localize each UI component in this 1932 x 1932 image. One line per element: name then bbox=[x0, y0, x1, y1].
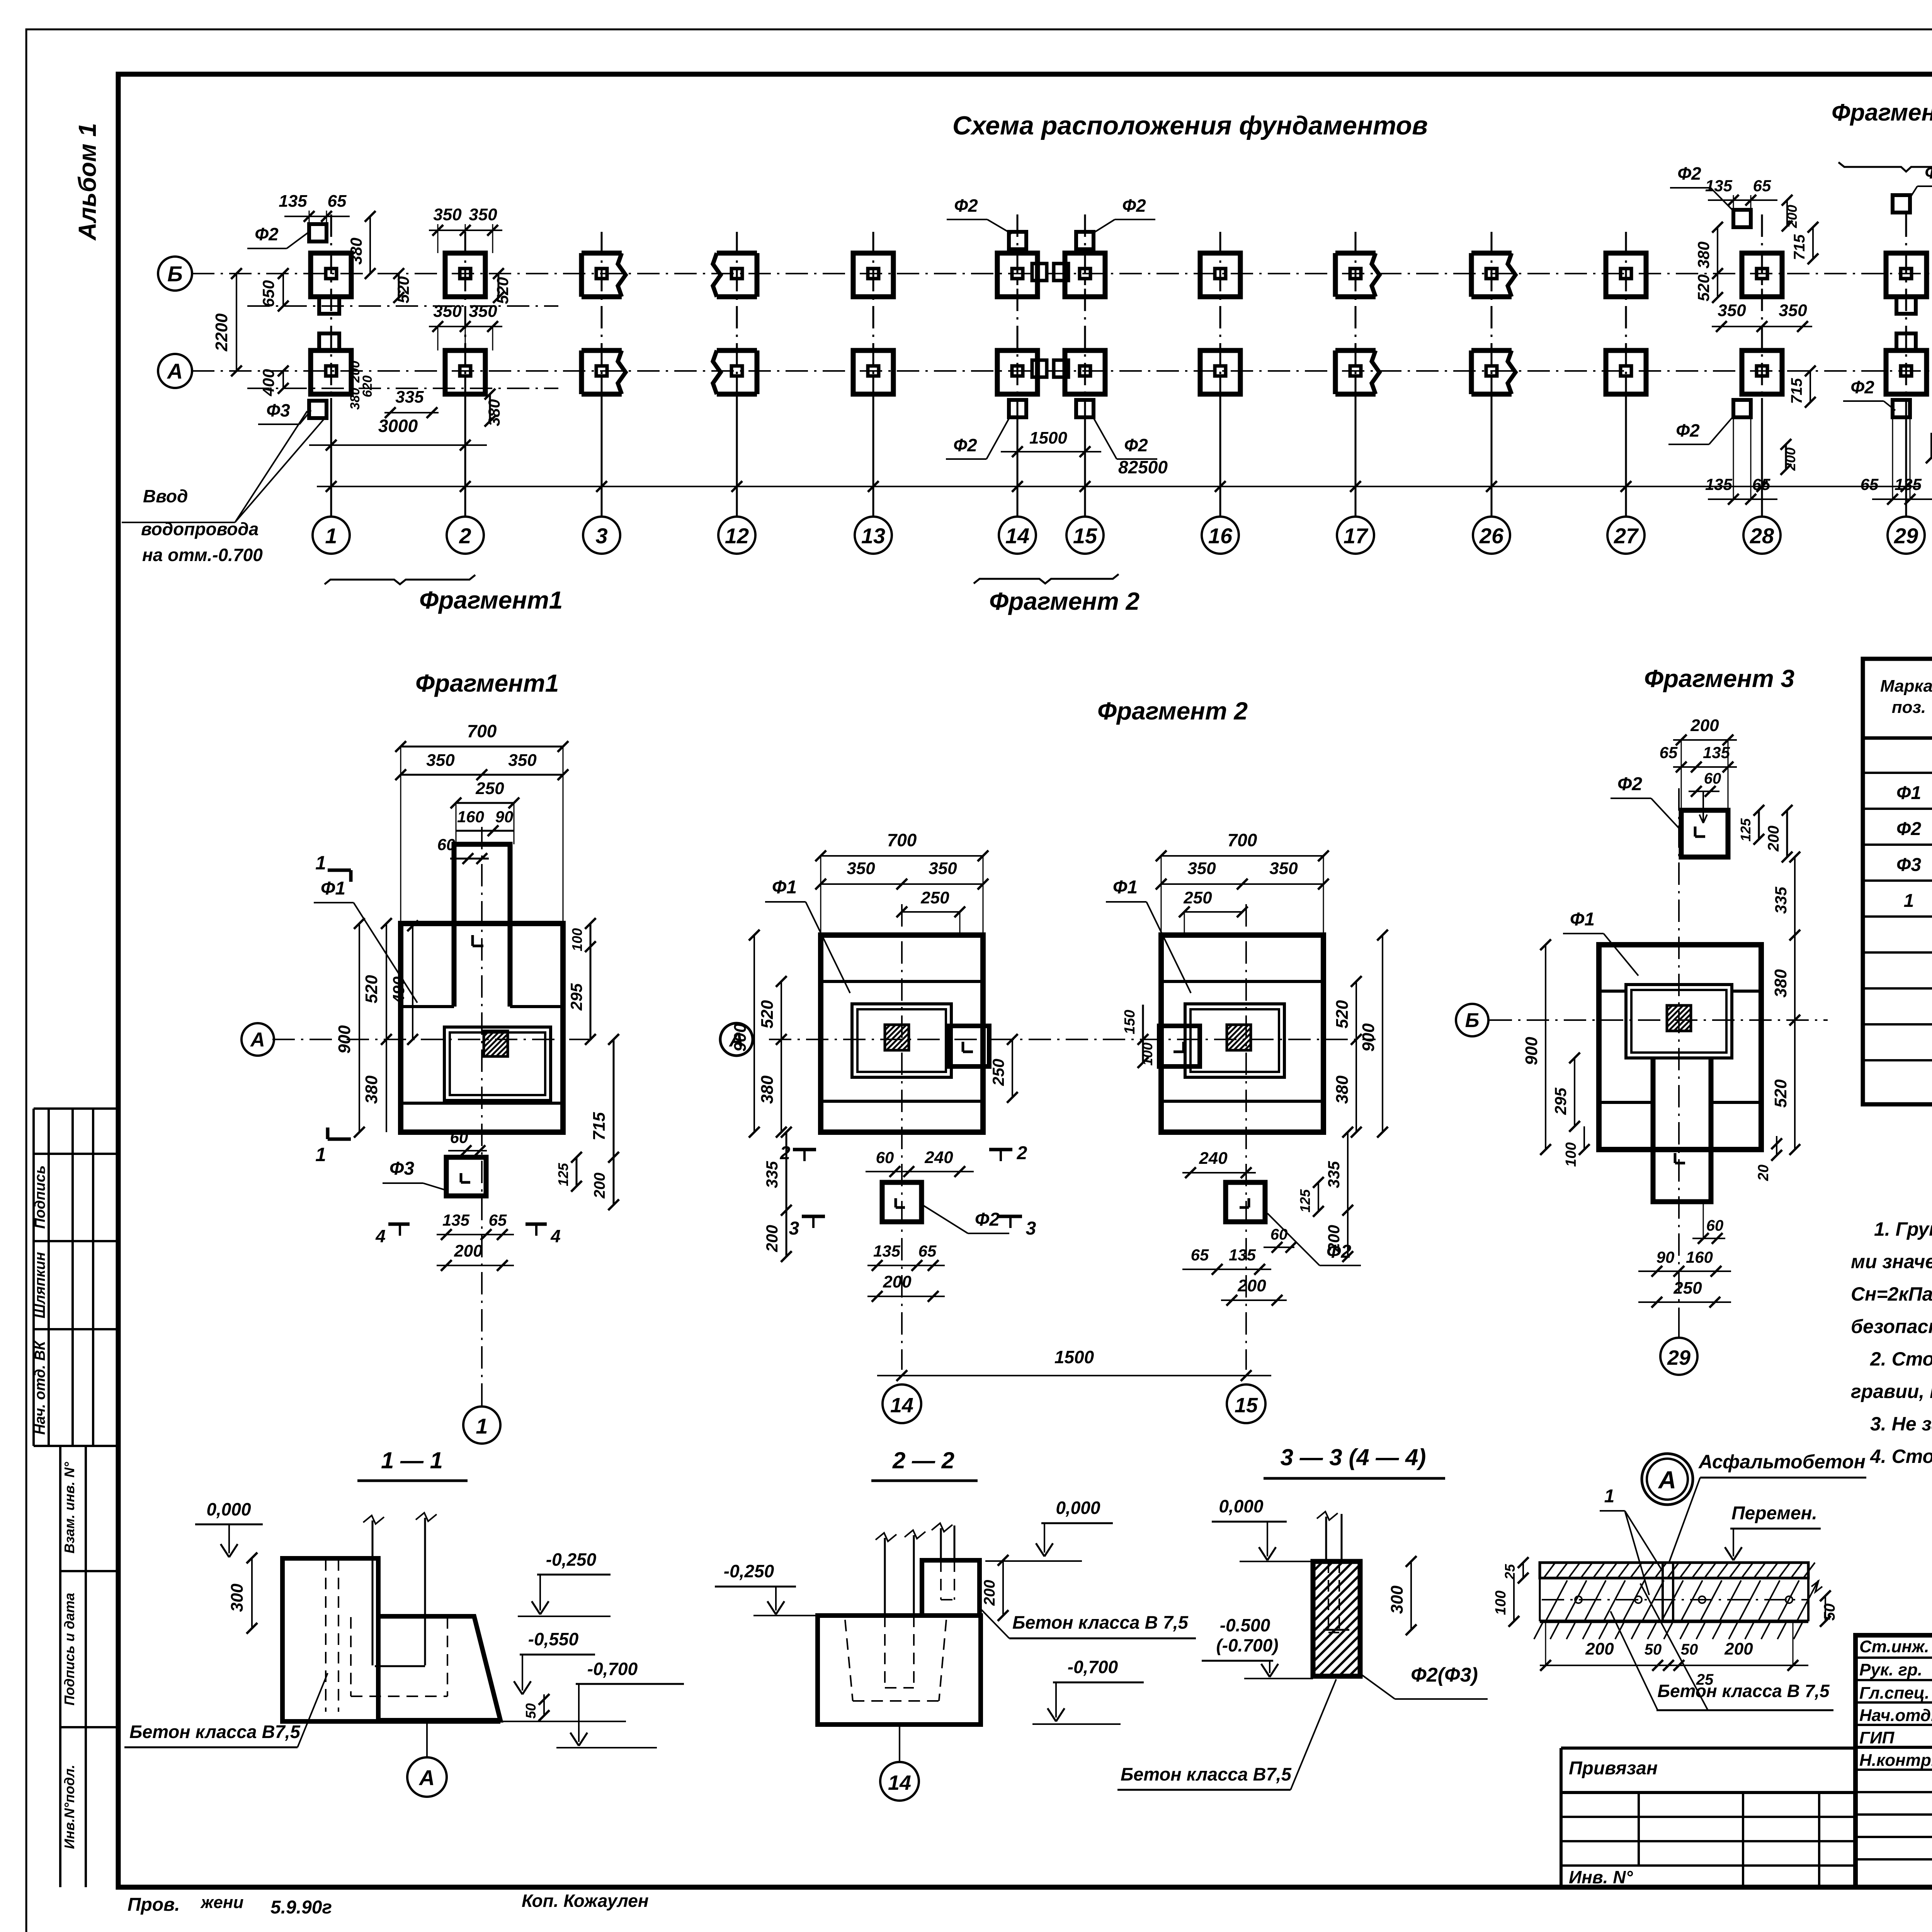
svg-text:Подпись: Подпись bbox=[32, 1165, 48, 1229]
svg-text:295: 295 bbox=[567, 983, 585, 1011]
svg-text:200: 200 bbox=[1784, 205, 1800, 228]
svg-text:200: 200 bbox=[883, 1272, 912, 1291]
node A base dashdot with anchors bbox=[1542, 1599, 1808, 1600]
svg-text:90: 90 bbox=[1656, 1248, 1675, 1266]
svg-text:поз.: поз. bbox=[1892, 698, 1926, 717]
svg-text:200: 200 bbox=[1690, 716, 1719, 735]
fragment2 dim 900 far left bbox=[753, 935, 755, 1132]
svg-text:50: 50 bbox=[523, 1703, 539, 1719]
fragment3 column hatched bbox=[1667, 1005, 1691, 1031]
svg-text:380: 380 bbox=[1694, 241, 1713, 269]
svg-text:Ф2: Ф2 bbox=[1617, 774, 1642, 794]
svg-text:Ст.инж.: Ст.инж. bbox=[1859, 1637, 1929, 1656]
svg-text:60: 60 bbox=[876, 1148, 894, 1167]
foundation Ф1 col 1 row А with tab bbox=[311, 350, 351, 394]
svg-text:350: 350 bbox=[469, 205, 497, 224]
water supply dashdot lines bbox=[247, 305, 558, 307]
svg-text:250: 250 bbox=[1673, 1279, 1702, 1298]
svg-text:Бетон класса В7,5: Бетон класса В7,5 bbox=[129, 1721, 301, 1742]
column circle 14 bbox=[999, 517, 1036, 554]
fragment2 left band lines bbox=[821, 980, 983, 983]
svg-text:Марка,: Марка, bbox=[1880, 677, 1932, 696]
column axis 14 bbox=[1017, 214, 1019, 398]
svg-text:-0.500: -0.500 bbox=[1220, 1615, 1270, 1635]
svg-text:Ф3: Ф3 bbox=[266, 400, 290, 420]
svg-text:335: 335 bbox=[1772, 886, 1790, 914]
svg-text:65: 65 bbox=[1753, 177, 1771, 195]
fragment1 band lines bbox=[401, 1005, 454, 1008]
column axis 17 bbox=[1355, 232, 1357, 398]
column circle 26 bbox=[1473, 517, 1510, 554]
svg-text:100: 100 bbox=[1563, 1142, 1579, 1167]
svg-text:Ф2: Ф2 bbox=[1850, 377, 1874, 397]
svg-text:4. Стойки замаркированы на лис: 4. Стойки замаркированы на листе 4. bbox=[1870, 1446, 1932, 1467]
column axis 28 bbox=[1761, 214, 1763, 398]
svg-text:безопасности по грунту Кг=1.0.: безопасности по грунту Кг=1.0. Грунтовые… bbox=[1851, 1316, 1932, 1337]
svg-text:Ф2: Ф2 bbox=[255, 224, 279, 244]
svg-text:200: 200 bbox=[591, 1173, 608, 1199]
fragment2 right axis vertical bbox=[1245, 904, 1247, 1370]
svg-text:Ф2: Ф2 bbox=[1677, 163, 1701, 184]
fragment1 section mark 4 marks bbox=[388, 1223, 410, 1226]
node A dim 25 left bbox=[1522, 1563, 1524, 1578]
dim 400 left bbox=[282, 371, 284, 388]
fragment3 axis vertical bbox=[1678, 788, 1680, 1321]
svg-text:26: 26 bbox=[1479, 524, 1504, 548]
svg-text:350: 350 bbox=[1779, 301, 1807, 320]
svg-text:620: 620 bbox=[360, 376, 375, 398]
section 2-2 dashed pit walls bbox=[845, 1620, 853, 1701]
Ф2 attached squares col 14/15 row А bbox=[1032, 360, 1047, 377]
svg-text:160: 160 bbox=[457, 808, 484, 826]
svg-text:380: 380 bbox=[485, 399, 503, 426]
svg-text:335: 335 bbox=[1325, 1161, 1343, 1188]
svg-text:Гл.спец.: Гл.спец. bbox=[1859, 1684, 1929, 1702]
fragment2 right Ф1 outer square bbox=[1161, 935, 1323, 1132]
foundation Ф1 col 13 row А bbox=[853, 350, 893, 394]
svg-text:135: 135 bbox=[279, 192, 307, 211]
svg-text:900: 900 bbox=[1522, 1037, 1541, 1065]
Ф2 plan squares col 1 bbox=[309, 224, 327, 241]
svg-text:15: 15 bbox=[1235, 1394, 1258, 1417]
svg-text:-0,250: -0,250 bbox=[724, 1561, 774, 1581]
svg-text:Б: Б bbox=[167, 262, 183, 286]
svg-text:65: 65 bbox=[489, 1211, 507, 1229]
title block signature rows bbox=[1855, 1656, 1932, 1659]
svg-text:200: 200 bbox=[763, 1225, 781, 1252]
svg-text:5.9.90г: 5.9.90г bbox=[270, 1897, 332, 1918]
svg-text:1500: 1500 bbox=[1054, 1347, 1094, 1367]
fragment3 dim 295 left bbox=[1574, 1058, 1575, 1126]
dim 520 col1 bbox=[398, 274, 400, 298]
section 3-3 column above bbox=[1325, 1517, 1327, 1561]
svg-text:350: 350 bbox=[929, 859, 957, 878]
svg-text:1: 1 bbox=[315, 852, 326, 874]
svg-text:3. Не замаркированные на схеме: 3. Не замаркированные на схеме фундамент… bbox=[1870, 1413, 1932, 1435]
fragment3 dim 900 left bbox=[1545, 945, 1546, 1150]
svg-text:1. Грунты в основании непучини: 1. Грунты в основании непучинистые, непр… bbox=[1874, 1218, 1932, 1240]
column circle 3 bbox=[583, 517, 620, 554]
svg-text:1 — 1: 1 — 1 bbox=[381, 1447, 443, 1473]
fragment3 band line bottom bbox=[1599, 1101, 1653, 1104]
column circle 12 bbox=[718, 517, 755, 554]
node A dim 50 right bbox=[1825, 1596, 1826, 1621]
svg-text:Сн=2кПа(0,02кгс/см²), Е=14,7МП: Сн=2кПа(0,02кгс/см²), Е=14,7МПа (150кгс/… bbox=[1851, 1283, 1932, 1305]
foundation Ф1 col 3 row А bbox=[582, 348, 622, 353]
svg-text:2: 2 bbox=[1017, 1143, 1027, 1163]
svg-text:350: 350 bbox=[508, 751, 537, 770]
section 1-1 bottom line bbox=[282, 1719, 500, 1724]
section 2-2 column break marks bbox=[876, 1533, 896, 1541]
svg-text:200: 200 bbox=[981, 1580, 998, 1606]
section 2-2 axis circle 14 bbox=[899, 1725, 900, 1762]
section 1-1 column break marks bbox=[363, 1515, 384, 1524]
fragment3 circle 29 bbox=[1678, 1321, 1680, 1338]
svg-text:65: 65 bbox=[918, 1242, 937, 1260]
fragment2 left dims 520/380 bbox=[781, 981, 782, 1132]
svg-text:2. Стойки заделать в фундамент: 2. Стойки заделать в фундаменты бетоном … bbox=[1870, 1348, 1932, 1370]
svg-text:ГИП: ГИП bbox=[1859, 1728, 1895, 1747]
fragment1 Ф1 outer square bbox=[401, 923, 563, 1132]
section 2-2 dim 200 bbox=[1002, 1560, 1004, 1616]
svg-text:200: 200 bbox=[1585, 1639, 1614, 1658]
svg-text:335: 335 bbox=[395, 388, 424, 406]
svg-text:1: 1 bbox=[325, 524, 337, 548]
svg-text:-0,250: -0,250 bbox=[546, 1549, 597, 1570]
dim 380 col2 bottom bbox=[489, 394, 491, 421]
svg-text:520: 520 bbox=[758, 1000, 777, 1029]
svg-text:65: 65 bbox=[1752, 475, 1770, 493]
axis А line bbox=[192, 370, 1932, 372]
fragment1 anchor well double rect bbox=[444, 1027, 551, 1100]
svg-text:0,000: 0,000 bbox=[1056, 1498, 1100, 1518]
svg-text:350: 350 bbox=[469, 302, 497, 321]
node A ground hatch below bbox=[1534, 1623, 1543, 1639]
fragment3 dim 100 left bbox=[1583, 1126, 1585, 1150]
svg-text:3: 3 bbox=[595, 524, 607, 548]
svg-text:900: 900 bbox=[1359, 1023, 1378, 1052]
svg-text:Асфальтобетон: Асфальтобетон bbox=[1698, 1451, 1866, 1473]
svg-text:А: А bbox=[1658, 1466, 1676, 1494]
svg-text:250: 250 bbox=[1183, 888, 1212, 907]
fragment1 pedestal column mark bbox=[473, 945, 483, 947]
svg-text:125: 125 bbox=[1297, 1189, 1313, 1213]
svg-text:65: 65 bbox=[328, 192, 347, 211]
svg-text:Шляпкин: Шляпкин bbox=[32, 1252, 48, 1318]
fragment2 left Ф2 bottom detail bbox=[882, 1182, 922, 1222]
svg-text:240: 240 bbox=[924, 1148, 953, 1167]
svg-text:200: 200 bbox=[1765, 826, 1782, 852]
column axis 13 bbox=[872, 232, 874, 398]
svg-text:20: 20 bbox=[1755, 1165, 1772, 1181]
svg-text:Ф1: Ф1 bbox=[772, 877, 797, 898]
svg-text:Б: Б bbox=[1465, 1009, 1480, 1032]
annex block Привязан bbox=[1561, 1747, 1855, 1750]
foundation Ф1 col 14 row Б bbox=[997, 253, 1037, 297]
svg-text:350: 350 bbox=[1718, 301, 1746, 320]
section 1-1 dim 50 bbox=[543, 1694, 545, 1716]
foundation Ф1 col 29 row А with pedestal bbox=[1886, 350, 1927, 394]
fragment2 right dims 335/200 below bbox=[1347, 1132, 1349, 1210]
column circle 28 bbox=[1743, 517, 1781, 554]
node A concrete base layer bbox=[1540, 1577, 1808, 1579]
foundation Ф1 col 15 row А bbox=[1065, 350, 1105, 394]
fragment2 left column hatched bbox=[885, 1025, 909, 1050]
column axis 27 bbox=[1625, 232, 1627, 398]
fragment2 circle 15 bbox=[1227, 1384, 1265, 1423]
svg-text:380: 380 bbox=[1333, 1075, 1352, 1104]
svg-text:380: 380 bbox=[362, 1075, 381, 1104]
svg-text:13: 13 bbox=[861, 524, 885, 548]
svg-text:29: 29 bbox=[1667, 1346, 1690, 1369]
svg-text:135: 135 bbox=[1705, 177, 1733, 195]
svg-text:2: 2 bbox=[459, 524, 471, 548]
svg-text:2 — 2: 2 — 2 bbox=[892, 1447, 954, 1473]
column circle 27 bbox=[1607, 517, 1645, 554]
svg-text:380: 380 bbox=[758, 1075, 777, 1104]
fragment3 Ф1 outer square bbox=[1599, 945, 1761, 1150]
fragment3 axis horizontal bbox=[1490, 1019, 1828, 1021]
svg-text:520: 520 bbox=[1694, 274, 1713, 301]
svg-text:Ф2: Ф2 bbox=[975, 1209, 1000, 1230]
svg-text:900: 900 bbox=[335, 1025, 354, 1054]
svg-text:-0,700: -0,700 bbox=[587, 1659, 638, 1679]
svg-text:135: 135 bbox=[1705, 475, 1733, 493]
svg-text:715: 715 bbox=[590, 1112, 609, 1141]
dim 200 col28 top bbox=[1786, 200, 1788, 226]
dim 200 col28 bottom bbox=[1785, 444, 1787, 469]
svg-text:Взам. инв. N°: Взам. инв. N° bbox=[61, 1462, 77, 1554]
svg-text:Фрагмент1: Фрагмент1 bbox=[419, 586, 563, 614]
section 2-2 pier box above ground bbox=[922, 1560, 980, 1616]
svg-text:125: 125 bbox=[1738, 818, 1753, 842]
svg-text:Ф2: Ф2 bbox=[1925, 162, 1932, 182]
dim 520 col2 bbox=[498, 274, 500, 298]
svg-text:200: 200 bbox=[454, 1242, 483, 1260]
fragment2 right anchor well bbox=[1185, 1004, 1284, 1077]
svg-text:3000: 3000 bbox=[378, 416, 418, 436]
svg-text:160: 160 bbox=[1686, 1248, 1713, 1266]
svg-text:300: 300 bbox=[228, 1583, 247, 1612]
svg-text:1: 1 bbox=[315, 1144, 326, 1165]
svg-text:4: 4 bbox=[550, 1226, 561, 1246]
svg-text:125: 125 bbox=[555, 1163, 571, 1186]
fragment1 dim 125/200 right of Ф3 bbox=[576, 1157, 578, 1186]
svg-text:400: 400 bbox=[259, 369, 277, 396]
foundation Ф1 col 15 row Б bbox=[1065, 253, 1105, 297]
foundation Ф1 col 29 row Б with pedestal bbox=[1886, 253, 1927, 297]
section 3-3 dim 300 bbox=[1410, 1561, 1412, 1630]
svg-text:Ф1: Ф1 bbox=[321, 878, 345, 899]
svg-text:295: 295 bbox=[1551, 1087, 1570, 1115]
fragment2 section marks 2 bbox=[793, 1148, 816, 1151]
svg-text:50: 50 bbox=[1681, 1641, 1698, 1658]
fragment1 dim 490 left bbox=[412, 926, 413, 1039]
svg-text:200: 200 bbox=[1237, 1276, 1266, 1295]
column circle 15 bbox=[1066, 517, 1104, 554]
fragment1 column hatched bbox=[484, 1031, 508, 1056]
svg-text:65: 65 bbox=[1861, 475, 1879, 493]
svg-text:Бетон класса В 7,5: Бетон класса В 7,5 bbox=[1657, 1681, 1830, 1701]
svg-text:60: 60 bbox=[1704, 770, 1721, 787]
svg-text:1: 1 bbox=[1604, 1486, 1615, 1507]
svg-text:Ф1: Ф1 bbox=[1896, 783, 1921, 803]
svg-text:-0,700: -0,700 bbox=[1068, 1657, 1118, 1677]
svg-text:250: 250 bbox=[920, 888, 949, 907]
svg-text:60: 60 bbox=[450, 1128, 468, 1146]
column axis 2 bbox=[464, 232, 466, 398]
svg-text:100: 100 bbox=[1493, 1590, 1509, 1615]
fragment3 Ф2 top detail bbox=[1681, 810, 1728, 857]
svg-text:Рук. гр.: Рук. гр. bbox=[1859, 1660, 1922, 1679]
svg-text:350: 350 bbox=[847, 859, 875, 878]
fragment1 axis horizontal bbox=[272, 1039, 595, 1040]
fragment2 left axis vertical bbox=[901, 904, 903, 1370]
fragment2 right band lines bbox=[1161, 980, 1323, 983]
column circle 17 bbox=[1337, 517, 1374, 554]
svg-text:1: 1 bbox=[476, 1414, 488, 1438]
fragment2 circle 14 bbox=[883, 1384, 921, 1423]
section 1-1 axis circle А bbox=[426, 1721, 428, 1758]
svg-text:650: 650 bbox=[259, 280, 277, 307]
column axis 16 bbox=[1219, 232, 1221, 398]
svg-text:Фрагмент1: Фрагмент1 bbox=[415, 669, 559, 697]
svg-text:А: А bbox=[418, 1765, 435, 1790]
column axis 1 bbox=[330, 214, 332, 398]
fragment1 Ф3 detail square bbox=[446, 1157, 486, 1196]
svg-text:Ф3: Ф3 bbox=[389, 1158, 414, 1179]
svg-text:380: 380 bbox=[1771, 969, 1790, 998]
svg-text:4: 4 bbox=[375, 1226, 386, 1246]
svg-text:200: 200 bbox=[1928, 437, 1932, 460]
svg-text:135: 135 bbox=[873, 1242, 901, 1260]
foundation Ф1 col 16 row Б bbox=[1200, 253, 1240, 297]
foundation Ф1 col 16 row А bbox=[1200, 350, 1240, 394]
fragment3 dim 125/200 right of Ф2 bbox=[1758, 810, 1760, 839]
svg-text:715: 715 bbox=[1791, 234, 1808, 260]
svg-text:50: 50 bbox=[1821, 1604, 1838, 1621]
foundation Ф1 col 26 row А bbox=[1471, 348, 1512, 353]
fragment1 axis vertical bbox=[481, 827, 483, 1391]
svg-text:3: 3 bbox=[789, 1218, 799, 1239]
svg-text:135: 135 bbox=[442, 1211, 470, 1229]
svg-text:16: 16 bbox=[1208, 524, 1233, 548]
svg-text:135: 135 bbox=[1895, 475, 1922, 493]
foundation Ф1 col 17 row Б bbox=[1335, 251, 1376, 256]
svg-text:350: 350 bbox=[433, 205, 462, 224]
fragment2 left dims 335/200 below bbox=[786, 1132, 787, 1210]
svg-text:Фрагмент 2: Фрагмент 2 bbox=[1097, 697, 1248, 725]
section 1-1 dashed pit lines bbox=[350, 1617, 352, 1696]
fragment1 circle 1 bbox=[481, 1391, 483, 1406]
spec table rows bbox=[1863, 772, 1932, 774]
svg-text:Ф2: Ф2 bbox=[953, 435, 977, 455]
dim 380 col28 bbox=[1717, 227, 1718, 274]
svg-text:Фрагмент 2: Фрагмент 2 bbox=[989, 587, 1139, 615]
column circle 1 bbox=[313, 517, 350, 554]
fragment2 right dim 125 bbox=[1318, 1182, 1319, 1211]
fragment3 pedestal down bbox=[1653, 1058, 1711, 1202]
svg-text:700: 700 bbox=[887, 830, 917, 850]
svg-text:17: 17 bbox=[1344, 524, 1369, 548]
svg-text:15: 15 bbox=[1073, 524, 1097, 548]
column circle 16 bbox=[1202, 517, 1239, 554]
svg-text:82500: 82500 bbox=[1118, 457, 1168, 477]
svg-text:29: 29 bbox=[1894, 524, 1918, 548]
svg-text:А: А bbox=[250, 1029, 265, 1051]
svg-text:150: 150 bbox=[1122, 1010, 1138, 1034]
fragment2 axis horizontal bbox=[769, 1039, 1376, 1040]
dim 200 col29 bottom bbox=[1930, 433, 1932, 458]
svg-text:100: 100 bbox=[569, 928, 585, 951]
fragment2 right column hatched bbox=[1227, 1025, 1251, 1050]
svg-text:Фрагмент 3: Фрагмент 3 bbox=[1832, 99, 1932, 126]
svg-text:Ф3: Ф3 bbox=[1896, 855, 1921, 875]
fragment2 right dims 520/380 bbox=[1355, 981, 1357, 1132]
title block frame bbox=[1855, 1635, 1932, 1887]
foundation Ф1 col 1 row Б with tab bbox=[311, 253, 351, 297]
svg-text:Ф2: Ф2 bbox=[1327, 1242, 1351, 1262]
node A double circle bbox=[1642, 1454, 1693, 1505]
svg-text:2200: 2200 bbox=[212, 313, 231, 352]
svg-text:гравии, морозостойкость не ниж: гравии, морозостойкость не ниже F50. bbox=[1851, 1381, 1932, 1402]
svg-text:520: 520 bbox=[1333, 1000, 1352, 1029]
svg-text:715: 715 bbox=[1788, 378, 1805, 404]
svg-text:Пров.: Пров. bbox=[128, 1895, 180, 1915]
fragment2 section marks 3 bbox=[802, 1215, 825, 1218]
svg-text:300: 300 bbox=[1388, 1585, 1406, 1614]
foundation Ф1 col 14 row А bbox=[997, 350, 1037, 394]
svg-text:135: 135 bbox=[1229, 1246, 1256, 1264]
svg-text:520: 520 bbox=[493, 277, 512, 304]
Ф2 plan squares col 14/15 row А bbox=[1009, 400, 1026, 417]
dim 380 col1 bbox=[369, 216, 371, 274]
fragment2 right Ф2 bottom detail bbox=[1226, 1182, 1265, 1222]
svg-text:700: 700 bbox=[1228, 830, 1257, 850]
section 2-2 pier column dashed bbox=[940, 1528, 942, 1560]
svg-text:520: 520 bbox=[394, 276, 412, 303]
svg-text:Привязан: Привязан bbox=[1569, 1758, 1658, 1779]
svg-text:жени: жени bbox=[200, 1893, 243, 1912]
fragment3 dim 380 right bbox=[1794, 935, 1796, 1020]
svg-text:Ф2: Ф2 bbox=[1896, 819, 1921, 839]
margin stamp lower (Взам.инв.N / Подпись и дата / Инв.N подл.) bbox=[60, 1445, 118, 1447]
axis А circle bbox=[158, 354, 192, 388]
svg-text:Ф2: Ф2 bbox=[1124, 435, 1148, 455]
foundation Ф1 col 26 row Б bbox=[1471, 251, 1512, 256]
svg-text:12: 12 bbox=[725, 524, 749, 548]
node A asphalt layer hatched bbox=[1540, 1563, 1808, 1578]
dim 715 col28 Б bbox=[1812, 227, 1814, 259]
section 1-1 trapezoid footing bbox=[316, 1616, 500, 1720]
Ф2 attached squares col 14/15 row Б bbox=[1032, 264, 1047, 281]
svg-text:2: 2 bbox=[780, 1143, 791, 1163]
svg-text:14: 14 bbox=[888, 1771, 911, 1794]
svg-text:Коп. Кожаулен: Коп. Кожаулен bbox=[522, 1891, 649, 1911]
svg-text:1: 1 bbox=[1904, 891, 1914, 911]
column circle 13 bbox=[855, 517, 892, 554]
column axis 26 bbox=[1491, 232, 1493, 398]
svg-text:350: 350 bbox=[1187, 859, 1216, 878]
section 2-2 column 14 solid+dashed bbox=[884, 1538, 886, 1616]
section 1-1 left box bbox=[282, 1558, 378, 1721]
foundation Ф1 col 27 row Б bbox=[1606, 253, 1646, 297]
foundation Ф1 col 28 row Б bbox=[1742, 253, 1782, 297]
foundation Ф1 col 13 row Б bbox=[853, 253, 893, 297]
svg-text:0,000: 0,000 bbox=[1219, 1496, 1264, 1516]
svg-text:А: А bbox=[167, 359, 183, 383]
dim 2200 left bbox=[236, 274, 237, 371]
